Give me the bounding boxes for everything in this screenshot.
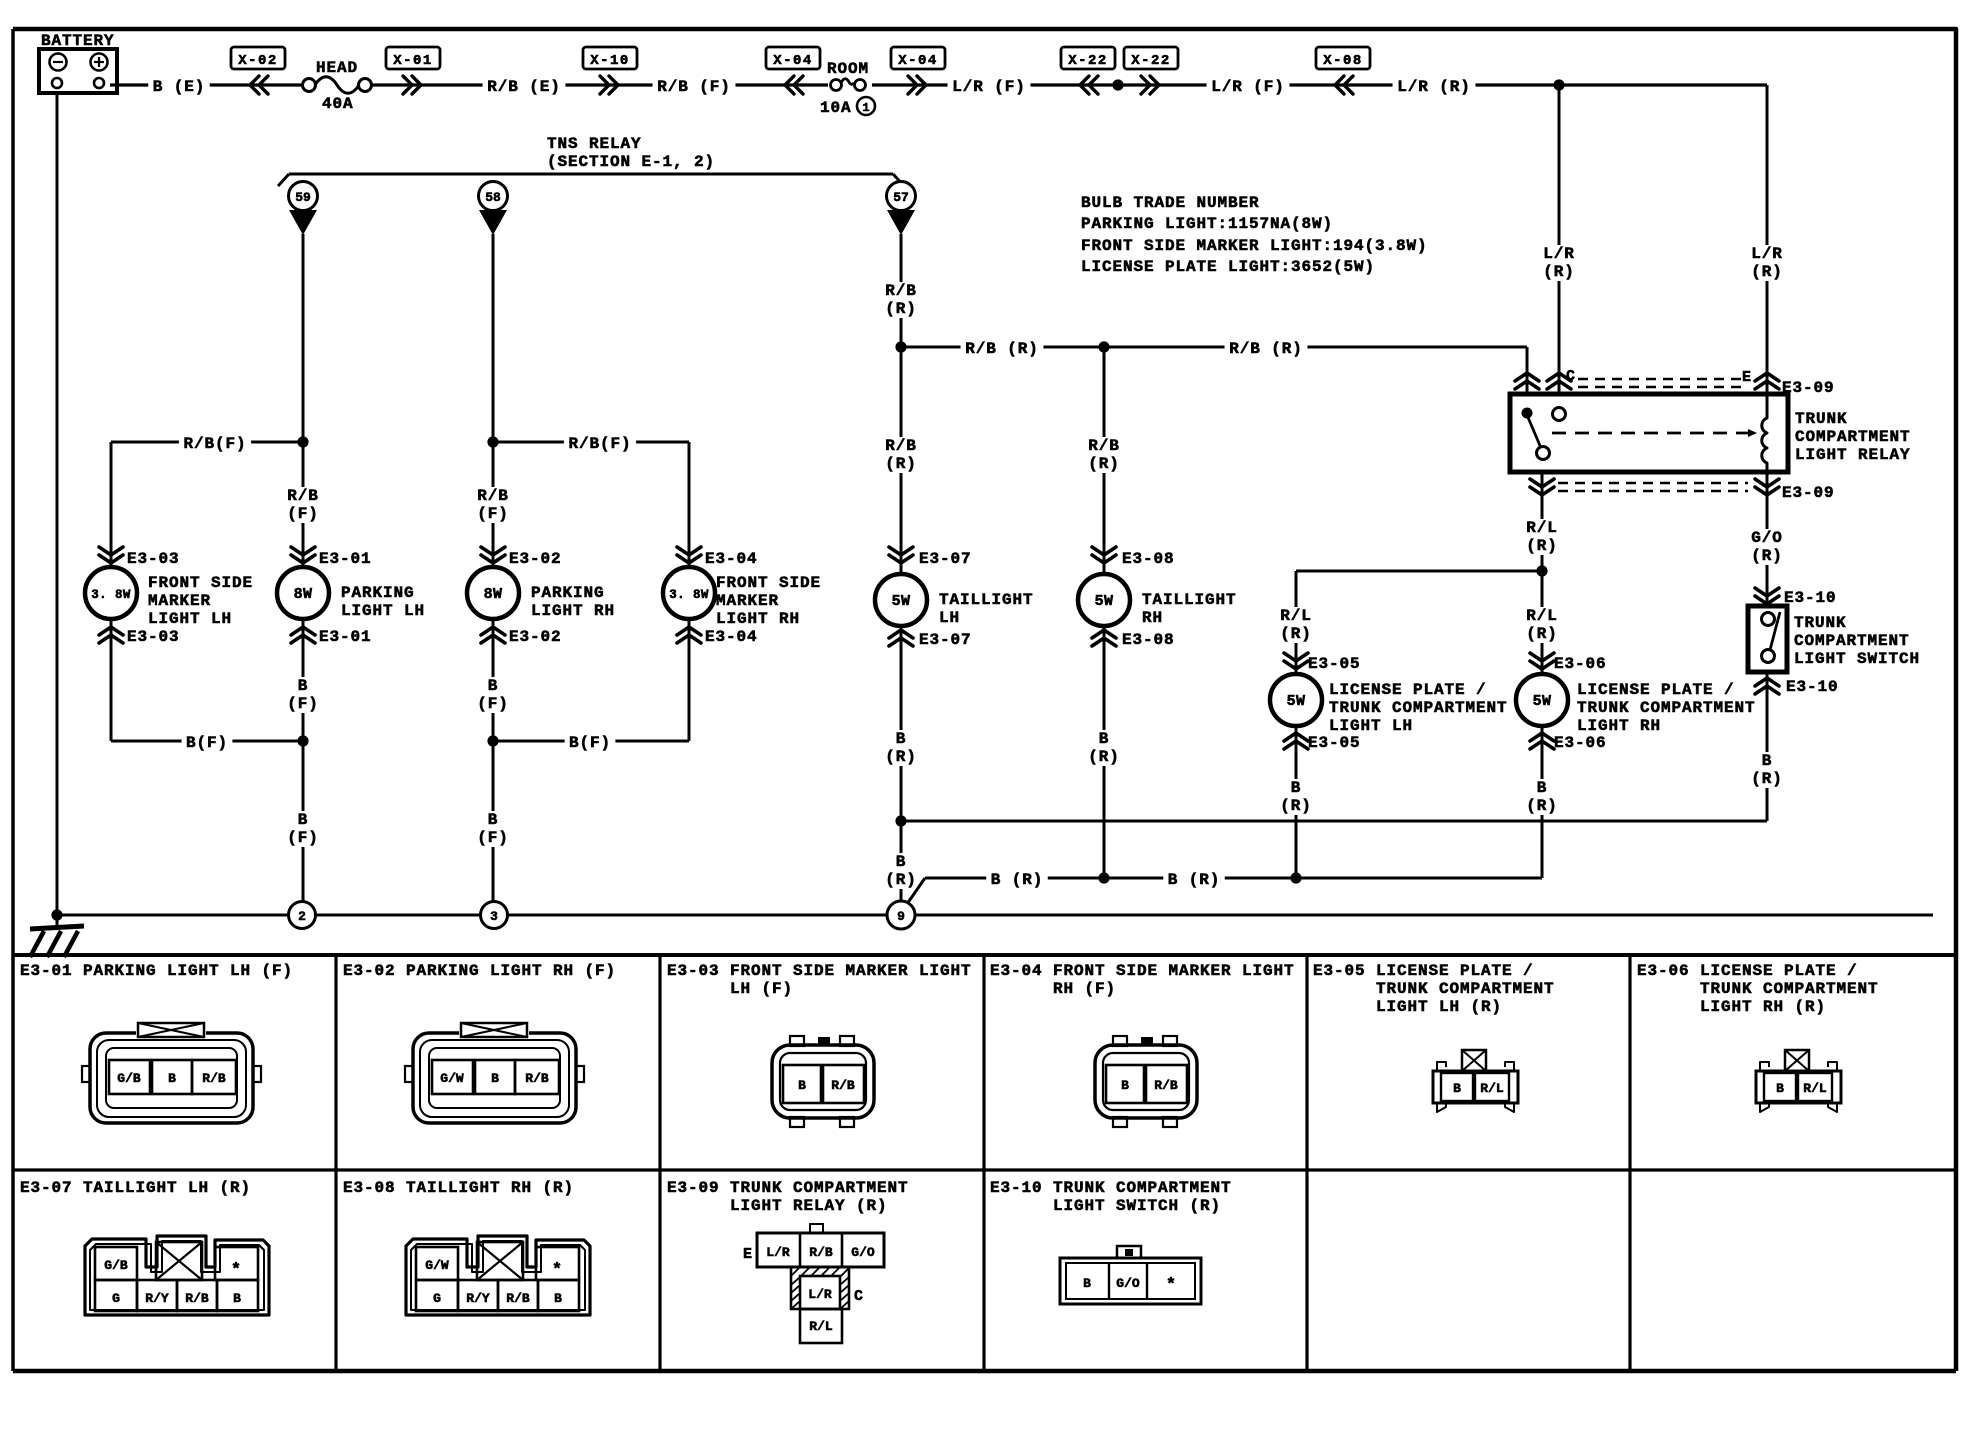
svg-text:L/R: L/R bbox=[766, 1245, 790, 1260]
svg-text:TRUNK COMPARTMENT: TRUNK COMPARTMENT bbox=[1700, 980, 1879, 998]
svg-text:(R): (R) bbox=[885, 455, 917, 473]
svg-text:E3-04: E3-04 bbox=[705, 628, 758, 646]
svg-text:R/Y: R/Y bbox=[145, 1291, 169, 1306]
svg-text:R/L: R/L bbox=[1280, 607, 1312, 625]
svg-text:E3-04 FRONT SIDE MARKER LIGHT: E3-04 FRONT SIDE MARKER LIGHT bbox=[990, 962, 1295, 980]
svg-text:L/R (F): L/R (F) bbox=[952, 78, 1026, 96]
svg-text:X-10: X-10 bbox=[590, 53, 630, 69]
svg-text:(SECTION E-1, 2): (SECTION E-1, 2) bbox=[547, 153, 715, 171]
svg-text:E3-03: E3-03 bbox=[127, 628, 180, 646]
svg-text:3. 8W: 3. 8W bbox=[91, 588, 131, 602]
svg-text:(R): (R) bbox=[885, 748, 917, 766]
svg-text:R/L: R/L bbox=[809, 1319, 833, 1334]
svg-text:E3-01: E3-01 bbox=[319, 628, 372, 646]
svg-text:*: * bbox=[231, 1261, 241, 1280]
svg-text:(R): (R) bbox=[1280, 797, 1312, 815]
svg-text:E3-04: E3-04 bbox=[705, 550, 758, 568]
svg-text:R/B: R/B bbox=[525, 1071, 549, 1086]
svg-text:(R): (R) bbox=[1526, 537, 1558, 555]
svg-text:B(F): B(F) bbox=[569, 734, 611, 752]
svg-text:5W: 5W bbox=[892, 593, 911, 610]
svg-text:TRUNK COMPARTMENT: TRUNK COMPARTMENT bbox=[1376, 980, 1555, 998]
svg-text:40A: 40A bbox=[322, 95, 354, 113]
svg-text:B: B bbox=[298, 811, 309, 829]
svg-text:R/L: R/L bbox=[1480, 1081, 1504, 1096]
svg-text:X-02: X-02 bbox=[238, 53, 278, 69]
svg-text:G: G bbox=[112, 1291, 120, 1306]
svg-text:X-04: X-04 bbox=[898, 53, 938, 69]
svg-text:(F): (F) bbox=[477, 695, 509, 713]
svg-text:LIGHT RELAY: LIGHT RELAY bbox=[1795, 446, 1911, 464]
svg-text:COMPARTMENT: COMPARTMENT bbox=[1795, 428, 1911, 446]
svg-text:MARKER: MARKER bbox=[716, 592, 779, 610]
svg-text:C: C bbox=[1566, 368, 1576, 385]
svg-text:B: B bbox=[896, 730, 907, 748]
svg-text:LIGHT LH (R): LIGHT LH (R) bbox=[1376, 998, 1502, 1016]
svg-text:E3-01 PARKING LIGHT LH (F): E3-01 PARKING LIGHT LH (F) bbox=[20, 962, 293, 980]
svg-text:E3-07: E3-07 bbox=[919, 631, 972, 649]
svg-text:LH: LH bbox=[939, 609, 960, 627]
svg-text:X-08: X-08 bbox=[1323, 53, 1363, 69]
svg-text:L/R (F): L/R (F) bbox=[1211, 78, 1285, 96]
svg-text:E3-08: E3-08 bbox=[1122, 550, 1175, 568]
svg-text:R/L: R/L bbox=[1526, 607, 1558, 625]
svg-text:PARKING LIGHT:1157NA(8W): PARKING LIGHT:1157NA(8W) bbox=[1081, 215, 1333, 233]
svg-text:TAILLIGHT: TAILLIGHT bbox=[939, 591, 1034, 609]
svg-text:B: B bbox=[1453, 1081, 1461, 1096]
svg-text:R/B (E): R/B (E) bbox=[487, 78, 561, 96]
svg-text:R/B (R): R/B (R) bbox=[1229, 340, 1303, 358]
svg-text:B: B bbox=[554, 1291, 562, 1306]
svg-text:FRONT SIDE MARKER LIGHT:194(3.: FRONT SIDE MARKER LIGHT:194(3.8W) bbox=[1081, 237, 1428, 255]
svg-text:FRONT SIDE: FRONT SIDE bbox=[148, 574, 253, 592]
svg-text:FRONT SIDE: FRONT SIDE bbox=[716, 574, 821, 592]
svg-text:BULB TRADE NUMBER: BULB TRADE NUMBER bbox=[1081, 194, 1260, 212]
svg-text:TRUNK COMPARTMENT: TRUNK COMPARTMENT bbox=[1329, 699, 1508, 717]
svg-text:PARKING: PARKING bbox=[531, 584, 605, 602]
svg-text:R/B: R/B bbox=[1088, 437, 1120, 455]
svg-text:LICENSE PLATE /: LICENSE PLATE / bbox=[1329, 681, 1487, 699]
svg-text:59: 59 bbox=[295, 190, 311, 205]
svg-text:L/R: L/R bbox=[1751, 245, 1783, 263]
svg-text:*: * bbox=[1166, 1276, 1176, 1295]
svg-text:58: 58 bbox=[485, 190, 501, 205]
svg-text:G/B: G/B bbox=[117, 1071, 141, 1086]
svg-text:E3-03: E3-03 bbox=[127, 550, 180, 568]
svg-text:E3-02: E3-02 bbox=[509, 628, 562, 646]
svg-text:B: B bbox=[488, 677, 499, 695]
svg-text:5W: 5W bbox=[1095, 593, 1114, 610]
svg-text:2: 2 bbox=[298, 909, 306, 924]
svg-text:R/B(F): R/B(F) bbox=[568, 435, 631, 453]
svg-text:3: 3 bbox=[490, 909, 498, 924]
svg-text:E3-06: E3-06 bbox=[1554, 655, 1607, 673]
svg-text:LH (F): LH (F) bbox=[730, 980, 793, 998]
svg-text:R/B: R/B bbox=[185, 1291, 209, 1306]
svg-text:B: B bbox=[1291, 779, 1302, 797]
svg-text:R/B: R/B bbox=[885, 437, 917, 455]
svg-text:G/O: G/O bbox=[1751, 529, 1783, 547]
svg-text:E: E bbox=[743, 1246, 752, 1263]
svg-text:COMPARTMENT: COMPARTMENT bbox=[1794, 632, 1910, 650]
svg-text:R/B(F): R/B(F) bbox=[183, 435, 246, 453]
svg-text:57: 57 bbox=[893, 190, 909, 205]
svg-text:R/B: R/B bbox=[202, 1071, 226, 1086]
svg-text:E3-05: E3-05 bbox=[1308, 655, 1361, 673]
svg-text:E3-10: E3-10 bbox=[1786, 678, 1839, 696]
svg-text:R/B (F): R/B (F) bbox=[657, 78, 731, 96]
svg-text:R/B: R/B bbox=[477, 487, 509, 505]
svg-text:B (R): B (R) bbox=[991, 871, 1044, 889]
svg-text:(R): (R) bbox=[1280, 625, 1312, 643]
svg-text:R/L: R/L bbox=[1803, 1081, 1827, 1096]
svg-text:E3-07: E3-07 bbox=[919, 550, 972, 568]
svg-text:TRUNK COMPARTMENT: TRUNK COMPARTMENT bbox=[1577, 699, 1756, 717]
svg-text:E3-08: E3-08 bbox=[1122, 631, 1175, 649]
svg-text:E3-09: E3-09 bbox=[1782, 484, 1835, 502]
svg-text:B: B bbox=[491, 1071, 499, 1086]
svg-text:(F): (F) bbox=[287, 695, 319, 713]
svg-text:R/B: R/B bbox=[506, 1291, 530, 1306]
svg-text:R/B: R/B bbox=[809, 1245, 833, 1260]
svg-text:L/R: L/R bbox=[1543, 245, 1575, 263]
svg-text:E3-02: E3-02 bbox=[509, 550, 562, 568]
svg-text:LIGHT LH: LIGHT LH bbox=[148, 610, 232, 628]
svg-text:L/R (R): L/R (R) bbox=[1397, 78, 1471, 96]
svg-text:(R): (R) bbox=[1526, 625, 1558, 643]
svg-text:(F): (F) bbox=[477, 829, 509, 847]
svg-text:TAILLIGHT: TAILLIGHT bbox=[1142, 591, 1237, 609]
svg-text:B: B bbox=[1083, 1276, 1091, 1291]
svg-text:X-22: X-22 bbox=[1068, 53, 1108, 69]
svg-text:X-01: X-01 bbox=[393, 53, 433, 69]
svg-text:(F): (F) bbox=[287, 505, 319, 523]
svg-text:5W: 5W bbox=[1533, 693, 1552, 710]
svg-text:LIGHT SWITCH (R): LIGHT SWITCH (R) bbox=[1053, 1197, 1221, 1215]
svg-text:B (R): B (R) bbox=[1168, 871, 1221, 889]
svg-text:RH (F): RH (F) bbox=[1053, 980, 1116, 998]
svg-text:E3-08 TAILLIGHT RH (R): E3-08 TAILLIGHT RH (R) bbox=[343, 1179, 574, 1197]
svg-text:G/O: G/O bbox=[851, 1245, 875, 1260]
svg-text:E3-01: E3-01 bbox=[319, 550, 372, 568]
svg-text:(R): (R) bbox=[885, 300, 917, 318]
svg-text:B: B bbox=[896, 853, 907, 871]
svg-text:TRUNK: TRUNK bbox=[1794, 614, 1847, 632]
svg-text:B: B bbox=[168, 1071, 176, 1086]
svg-text:(R): (R) bbox=[1751, 770, 1783, 788]
svg-text:G: G bbox=[433, 1291, 441, 1306]
svg-text:B: B bbox=[1099, 730, 1110, 748]
svg-text:PARKING: PARKING bbox=[341, 584, 415, 602]
svg-text:G/O: G/O bbox=[1116, 1276, 1140, 1291]
svg-text:B: B bbox=[1537, 779, 1548, 797]
svg-text:LIGHT RH (R): LIGHT RH (R) bbox=[1700, 998, 1826, 1016]
svg-text:(R): (R) bbox=[1751, 263, 1783, 281]
svg-text:10A: 10A bbox=[820, 99, 852, 117]
svg-text:B(F): B(F) bbox=[186, 734, 228, 752]
svg-text:E3-05: E3-05 bbox=[1308, 734, 1361, 752]
svg-text:(R): (R) bbox=[1751, 547, 1783, 565]
svg-text:*: * bbox=[552, 1261, 562, 1280]
svg-text:R/L: R/L bbox=[1526, 519, 1558, 537]
svg-text:B: B bbox=[233, 1291, 241, 1306]
svg-text:R/B (R): R/B (R) bbox=[965, 340, 1039, 358]
svg-text:E3-05 LICENSE PLATE /: E3-05 LICENSE PLATE / bbox=[1313, 962, 1534, 980]
svg-text:HEAD: HEAD bbox=[316, 59, 358, 77]
svg-text:B (E): B (E) bbox=[153, 78, 206, 96]
svg-text:E3-09 TRUNK COMPARTMENT: E3-09 TRUNK COMPARTMENT bbox=[667, 1179, 909, 1197]
svg-text:R/B: R/B bbox=[831, 1078, 855, 1093]
svg-text:E3-10 TRUNK COMPARTMENT: E3-10 TRUNK COMPARTMENT bbox=[990, 1179, 1232, 1197]
svg-text:MARKER: MARKER bbox=[148, 592, 211, 610]
svg-text:E3-06 LICENSE PLATE /: E3-06 LICENSE PLATE / bbox=[1637, 962, 1858, 980]
svg-text:C: C bbox=[854, 1288, 864, 1305]
svg-text:G/B: G/B bbox=[104, 1258, 128, 1273]
svg-text:R/B: R/B bbox=[287, 487, 319, 505]
svg-text:LIGHT RELAY (R): LIGHT RELAY (R) bbox=[730, 1197, 888, 1215]
svg-text:LICENSE PLATE LIGHT:3652(5W): LICENSE PLATE LIGHT:3652(5W) bbox=[1081, 258, 1375, 276]
svg-text:RH: RH bbox=[1142, 609, 1163, 627]
svg-text:L/R: L/R bbox=[808, 1287, 832, 1302]
svg-text:ROOM: ROOM bbox=[827, 60, 869, 78]
svg-text:LIGHT RH: LIGHT RH bbox=[1577, 717, 1661, 735]
svg-text:(F): (F) bbox=[287, 829, 319, 847]
svg-text:LIGHT LH: LIGHT LH bbox=[341, 602, 425, 620]
svg-text:9: 9 bbox=[897, 909, 905, 924]
svg-text:E: E bbox=[1742, 369, 1752, 386]
svg-text:R/Y: R/Y bbox=[466, 1291, 490, 1306]
svg-text:B: B bbox=[1121, 1078, 1129, 1093]
svg-text:E3-07 TAILLIGHT LH (R): E3-07 TAILLIGHT LH (R) bbox=[20, 1179, 251, 1197]
svg-text:(R): (R) bbox=[1088, 748, 1120, 766]
svg-text:E3-02 PARKING LIGHT RH (F): E3-02 PARKING LIGHT RH (F) bbox=[343, 962, 616, 980]
svg-text:5W: 5W bbox=[1287, 693, 1306, 710]
svg-text:X-22: X-22 bbox=[1131, 53, 1171, 69]
svg-text:LIGHT SWITCH: LIGHT SWITCH bbox=[1794, 650, 1920, 668]
svg-text:(R): (R) bbox=[1526, 797, 1558, 815]
svg-text:8W: 8W bbox=[484, 586, 503, 603]
svg-text:8W: 8W bbox=[294, 586, 313, 603]
svg-text:B: B bbox=[298, 677, 309, 695]
svg-text:G/W: G/W bbox=[440, 1071, 464, 1086]
svg-text:TRUNK: TRUNK bbox=[1795, 410, 1848, 428]
svg-text:B: B bbox=[488, 811, 499, 829]
svg-text:3. 8W: 3. 8W bbox=[669, 588, 709, 602]
svg-text:X-04: X-04 bbox=[773, 53, 813, 69]
svg-text:(R): (R) bbox=[885, 871, 917, 889]
svg-text:LIGHT RH: LIGHT RH bbox=[716, 610, 800, 628]
svg-text:LICENSE PLATE /: LICENSE PLATE / bbox=[1577, 681, 1735, 699]
svg-text:G/W: G/W bbox=[425, 1258, 449, 1273]
svg-text:B: B bbox=[1776, 1081, 1784, 1096]
svg-text:B: B bbox=[798, 1078, 806, 1093]
svg-text:(F): (F) bbox=[477, 505, 509, 523]
svg-text:LIGHT LH: LIGHT LH bbox=[1329, 717, 1413, 735]
svg-text:TNS RELAY: TNS RELAY bbox=[547, 135, 642, 153]
svg-text:R/B: R/B bbox=[1154, 1078, 1178, 1093]
svg-text:LIGHT RH: LIGHT RH bbox=[531, 602, 615, 620]
svg-text:(R): (R) bbox=[1543, 263, 1575, 281]
svg-text:E3-10: E3-10 bbox=[1784, 589, 1837, 607]
svg-text:1: 1 bbox=[862, 101, 869, 115]
svg-text:E3-03 FRONT SIDE MARKER LIGHT: E3-03 FRONT SIDE MARKER LIGHT bbox=[667, 962, 972, 980]
svg-text:(R): (R) bbox=[1088, 455, 1120, 473]
svg-text:B: B bbox=[1762, 752, 1773, 770]
svg-text:E3-06: E3-06 bbox=[1554, 734, 1607, 752]
svg-text:R/B: R/B bbox=[885, 282, 917, 300]
